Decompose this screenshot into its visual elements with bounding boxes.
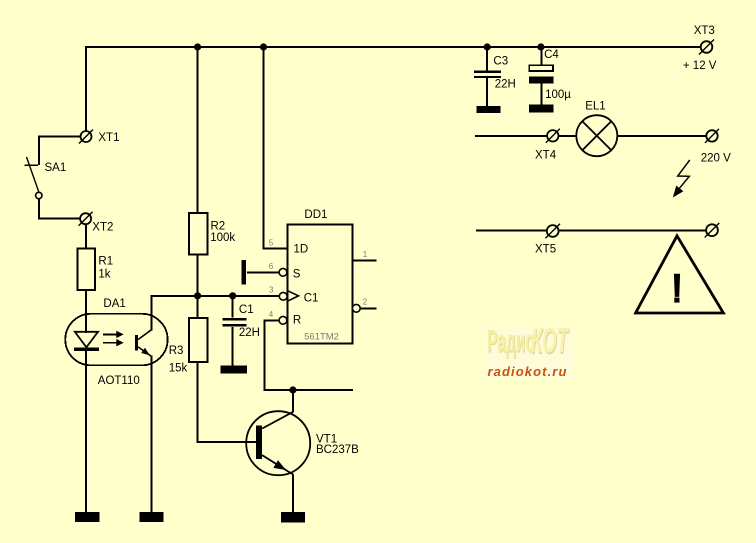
svg-text:22H: 22H bbox=[495, 78, 516, 90]
wire switch to XT2 bbox=[39, 199, 80, 219]
resistor R1 bbox=[77, 249, 95, 290]
svg-text:100µ: 100µ bbox=[545, 89, 571, 101]
wire top +12V rail bbox=[85, 46, 701, 48]
svg-text:DD1: DD1 bbox=[304, 209, 327, 221]
wire C3 top lead bbox=[486, 46, 488, 71]
lightning arrow bbox=[673, 160, 690, 198]
wire output pin 2 bbox=[360, 307, 376, 309]
svg-text:1: 1 bbox=[363, 250, 368, 259]
pin bubble 2 bbox=[352, 304, 360, 312]
junction rail D input bbox=[260, 43, 267, 50]
svg-text:R: R bbox=[293, 315, 301, 327]
label R2 value bbox=[210, 220, 235, 244]
wire DA1 collector up to node bbox=[151, 297, 153, 331]
wire R1 to LED anode bbox=[85, 290, 87, 333]
svg-text:22H: 22H bbox=[239, 327, 260, 339]
svg-text:4: 4 bbox=[269, 310, 274, 319]
ground DA1 cathode bbox=[75, 512, 99, 522]
svg-text:220 V: 220 V bbox=[701, 152, 731, 164]
IC DD1 box bbox=[288, 225, 353, 344]
common bar at S input bbox=[242, 260, 246, 285]
terminal XT2 bbox=[79, 212, 93, 226]
wire C4 top lead bbox=[540, 46, 542, 65]
svg-text:+ 12 V: + 12 V bbox=[683, 60, 717, 72]
label R1 value bbox=[98, 255, 113, 280]
wire node row to DD1 clock bbox=[151, 295, 280, 297]
ground DA1 emitter bbox=[140, 512, 164, 522]
svg-text:R3: R3 bbox=[169, 345, 184, 357]
svg-text:S: S bbox=[293, 269, 301, 281]
light arrows of DA1 bbox=[103, 331, 124, 347]
warning triangle bbox=[636, 236, 724, 313]
svg-text:XT5: XT5 bbox=[535, 244, 556, 256]
wire D input from rail bbox=[264, 46, 289, 248]
label C4 value bbox=[544, 49, 571, 101]
svg-text:3: 3 bbox=[269, 286, 274, 295]
junction rail C4 bbox=[537, 43, 544, 50]
junction VT1 collector bbox=[289, 386, 296, 393]
wire XT2 to R1 bbox=[85, 224, 87, 248]
phototransistor of DA1 bbox=[135, 330, 152, 357]
svg-text:C4: C4 bbox=[544, 49, 559, 61]
resistor R2 bbox=[189, 213, 207, 255]
svg-text:5: 5 bbox=[269, 238, 274, 247]
wire R input bbox=[264, 320, 279, 390]
junction rail R2 bbox=[194, 43, 201, 50]
wire R2 bottom lead bbox=[197, 255, 199, 297]
svg-text:R2: R2 bbox=[211, 220, 226, 232]
svg-text:AOT110: AOT110 bbox=[98, 375, 140, 387]
label VT1 value bbox=[316, 434, 359, 456]
wire R3 to VT1 base bbox=[198, 362, 257, 442]
terminal lamp right bbox=[705, 129, 719, 143]
terminal XT4 bbox=[546, 129, 560, 143]
switch SA1 bbox=[24, 157, 42, 199]
svg-text:radiokot.ru: radiokot.ru bbox=[488, 364, 568, 379]
pin bubble C1 bbox=[279, 292, 287, 300]
wire S input bbox=[247, 271, 279, 273]
wire R node to VT1 collector bbox=[263, 389, 353, 391]
wire XT1 to switch bbox=[39, 137, 81, 166]
svg-text:1D: 1D bbox=[294, 243, 309, 255]
wire VT1 emitter to ground bbox=[292, 475, 294, 512]
capacitor C3 bbox=[474, 72, 501, 77]
pin bubble S bbox=[279, 268, 287, 276]
junction node C1 bbox=[229, 292, 236, 299]
junction node R2-R3 bbox=[194, 292, 201, 299]
wire XT1 drop bbox=[85, 46, 87, 131]
wire mains row left bbox=[476, 229, 547, 231]
ground VT1 emitter bbox=[281, 512, 305, 522]
svg-text:DA1: DA1 bbox=[103, 298, 125, 310]
svg-text:15k: 15k bbox=[169, 363, 188, 375]
svg-text:Радио: Радио bbox=[487, 323, 535, 359]
terminal XT3 bbox=[699, 40, 714, 55]
wire C1 top lead bbox=[232, 295, 234, 318]
svg-text:BC237B: BC237B bbox=[316, 444, 359, 456]
svg-text:XT1: XT1 bbox=[98, 132, 119, 144]
transistor VT1 bbox=[246, 411, 310, 475]
wire DA1 emitter to ground bbox=[151, 356, 153, 513]
LED of DA1 bbox=[74, 332, 99, 351]
svg-text:C3: C3 bbox=[493, 55, 508, 67]
label C3 value bbox=[493, 55, 515, 90]
svg-text:2: 2 bbox=[363, 297, 368, 306]
svg-text:R1: R1 bbox=[98, 255, 113, 267]
terminal XT1 bbox=[79, 130, 93, 144]
svg-text:XT3: XT3 bbox=[694, 25, 715, 37]
wire EL1 to right terminal bbox=[617, 135, 706, 137]
resistor R3 bbox=[189, 318, 207, 362]
clock chevron bbox=[288, 291, 299, 301]
svg-text:КОТ: КОТ bbox=[531, 320, 570, 360]
wire C3 bottom lead bbox=[486, 78, 488, 106]
label C1 value bbox=[239, 304, 260, 339]
svg-text:SA1: SA1 bbox=[45, 162, 67, 174]
terminal mains right bbox=[705, 223, 720, 238]
watermark logo background bbox=[485, 326, 574, 378]
wire lamp row left bbox=[475, 135, 547, 137]
terminal XT5 bbox=[545, 224, 560, 239]
wire DA1 cathode to ground bbox=[85, 351, 87, 512]
ground C3 bbox=[476, 106, 500, 113]
pin bubble R bbox=[279, 316, 287, 324]
junction rail C3 bbox=[484, 43, 491, 50]
wire VT1 collector lead bbox=[292, 389, 294, 412]
svg-text:100k: 100k bbox=[210, 232, 235, 244]
wire output pin 1 bbox=[353, 259, 377, 261]
wire XT5 to right terminal bbox=[558, 229, 706, 231]
svg-text:C1: C1 bbox=[239, 304, 254, 316]
svg-text:561ТМ2: 561ТМ2 bbox=[304, 331, 339, 342]
capacitor C1 bbox=[222, 319, 246, 325]
wire C1 bottom lead bbox=[232, 327, 234, 366]
ground C4 bbox=[529, 105, 554, 113]
capacitor C4 polar bbox=[529, 65, 554, 83]
wire R3 top lead bbox=[197, 295, 199, 318]
optocoupler DA1 body bbox=[65, 314, 167, 366]
label R3 value bbox=[169, 345, 188, 375]
ground C1 bbox=[221, 366, 247, 374]
svg-text:C1: C1 bbox=[304, 292, 319, 304]
svg-text:XT4: XT4 bbox=[535, 149, 557, 161]
svg-text:EL1: EL1 bbox=[585, 100, 605, 112]
wire XT4 to EL1 bbox=[559, 135, 577, 137]
svg-text:6: 6 bbox=[269, 262, 274, 271]
svg-text:1k: 1k bbox=[98, 268, 110, 280]
wire R2 top lead bbox=[197, 46, 199, 213]
lamp EL1 bbox=[576, 115, 617, 156]
wire C4 bottom lead bbox=[540, 84, 542, 105]
svg-text:XT2: XT2 bbox=[92, 221, 113, 233]
